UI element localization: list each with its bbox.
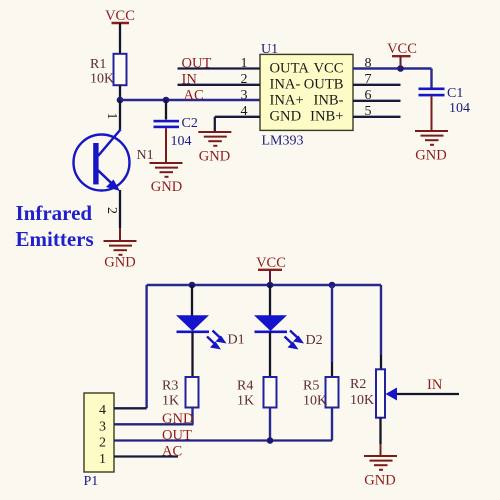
transistor N1: [74, 130, 154, 192]
svg-text:N1: N1: [137, 148, 154, 163]
svg-text:Emitters: Emitters: [16, 227, 94, 251]
wire U1 pin 2 IN: [178, 84, 261, 86]
svg-text:R2: R2: [350, 377, 366, 392]
svg-text:104: 104: [449, 101, 470, 116]
wire emitter pin to ground: [119, 190, 121, 228]
ground (U1 pin 4): [198, 132, 231, 165]
svg-text:7: 7: [365, 72, 372, 87]
svg-text:1K: 1K: [237, 394, 254, 409]
svg-text:OUT: OUT: [162, 427, 192, 443]
wire P1 pin 4 to VCC rail: [114, 407, 147, 409]
wire AC net horizontal to U1 pin 3: [120, 99, 260, 101]
power VCC (right, at U1 pin 8): [387, 41, 417, 69]
resistor R5: [303, 285, 339, 409]
svg-text:1: 1: [241, 56, 248, 71]
svg-text:3: 3: [241, 88, 248, 103]
svg-text:104: 104: [171, 134, 192, 149]
svg-text:D1: D1: [228, 333, 245, 348]
node junction rail/VCC/D2: [267, 282, 274, 289]
op-amp U1 LM393 body: [260, 42, 353, 149]
svg-text:GND: GND: [364, 473, 395, 489]
wire U1 pin 1 OUT: [178, 67, 261, 69]
svg-text:1: 1: [104, 113, 119, 120]
ground (R2): [364, 456, 397, 489]
LED D2: [254, 285, 323, 377]
svg-text:4: 4: [99, 403, 106, 418]
wire C2 to ground: [165, 128, 167, 162]
svg-text:GND: GND: [104, 255, 135, 271]
svg-text:5: 5: [365, 104, 372, 119]
ground (C2): [150, 163, 183, 195]
resistor R4: [237, 377, 277, 409]
svg-text:2: 2: [104, 207, 119, 214]
wire VCC rail (bottom): [147, 285, 381, 408]
wire collector pin: [119, 100, 121, 130]
svg-text:D2: D2: [306, 333, 323, 348]
LED D1: [176, 285, 245, 377]
svg-text:VCC: VCC: [105, 8, 135, 24]
node junction at pin 8 / VCC: [397, 65, 404, 72]
svg-text:AC: AC: [184, 88, 204, 104]
svg-text:LM393: LM393: [262, 134, 304, 149]
svg-text:INA+: INA+: [270, 93, 304, 109]
wire P1 pin 2 OUT net: [114, 439, 332, 441]
svg-text:IN: IN: [427, 377, 443, 393]
svg-text:R3: R3: [162, 379, 178, 394]
svg-text:C2: C2: [182, 116, 198, 131]
svg-text:10K: 10K: [350, 393, 374, 408]
wire U1 pin 7: [353, 84, 401, 86]
wire U1 pin 5: [353, 116, 401, 118]
wire R2 to ground: [379, 418, 381, 444]
svg-text:IN: IN: [182, 72, 198, 88]
svg-text:2: 2: [241, 72, 248, 87]
node junction at C2 top: [163, 97, 170, 104]
wire R5 to OUT net: [331, 408, 333, 441]
svg-text:OUT: OUT: [182, 55, 212, 71]
wire U1 pin 6: [353, 100, 401, 102]
svg-text:R5: R5: [303, 379, 319, 394]
power VCC (bottom rail): [256, 255, 286, 285]
capacitor C1: [419, 69, 471, 117]
connector P1: [84, 393, 115, 489]
resistor R1: [90, 54, 127, 87]
svg-text:INA-: INA-: [270, 77, 301, 93]
power VCC (top, at R1): [105, 8, 135, 54]
title Infrared Emitters: [16, 201, 94, 251]
svg-text:1: 1: [99, 452, 106, 467]
wire R1 to node: [119, 85, 121, 100]
svg-text:GND: GND: [162, 411, 193, 427]
svg-text:INB-: INB-: [314, 93, 344, 109]
svg-text:GND: GND: [151, 179, 182, 195]
svg-text:GND: GND: [270, 109, 302, 125]
svg-text:6: 6: [365, 88, 372, 103]
svg-text:R4: R4: [237, 379, 253, 394]
svg-text:OUTB: OUTB: [304, 77, 344, 93]
svg-text:P1: P1: [84, 474, 99, 489]
ground (C1): [415, 131, 448, 164]
node junction OUT/R4: [267, 437, 274, 444]
capacitor C2: [154, 100, 198, 149]
wire R3 to GND net: [191, 408, 193, 425]
resistor R3: [162, 377, 199, 409]
svg-text:AC: AC: [162, 443, 182, 459]
svg-text:GND: GND: [199, 149, 230, 165]
ground (transistor emitter): [104, 241, 137, 271]
svg-text:OUTA: OUTA: [270, 60, 310, 76]
wire U1 pin 8 to VCC and C1: [353, 67, 432, 69]
potentiometer R2: [350, 369, 459, 417]
svg-text:10K: 10K: [303, 394, 327, 409]
svg-text:C1: C1: [447, 86, 463, 101]
wire U1 pin 4 to ground: [215, 116, 260, 118]
svg-text:INB+: INB+: [310, 109, 343, 125]
wire P1 pin 1 AC net: [114, 455, 178, 457]
svg-text:1K: 1K: [162, 394, 179, 409]
svg-text:R1: R1: [90, 57, 106, 72]
svg-text:VCC: VCC: [313, 60, 343, 76]
svg-text:2: 2: [99, 436, 106, 451]
wire C1 to ground: [431, 96, 433, 130]
svg-text:3: 3: [99, 419, 106, 434]
node junction rail/R5: [329, 282, 336, 289]
node junction at R1 bottom: [117, 97, 124, 104]
svg-text:GND: GND: [415, 148, 446, 164]
node junction rail/D1: [189, 282, 196, 289]
svg-text:10K: 10K: [90, 72, 114, 87]
svg-text:Infrared: Infrared: [16, 201, 93, 225]
svg-text:VCC: VCC: [387, 41, 417, 57]
wire R4 to OUT net: [269, 408, 271, 441]
svg-text:4: 4: [241, 104, 248, 119]
svg-text:8: 8: [365, 56, 372, 71]
wire P1 pin 3 GND net: [114, 423, 194, 425]
